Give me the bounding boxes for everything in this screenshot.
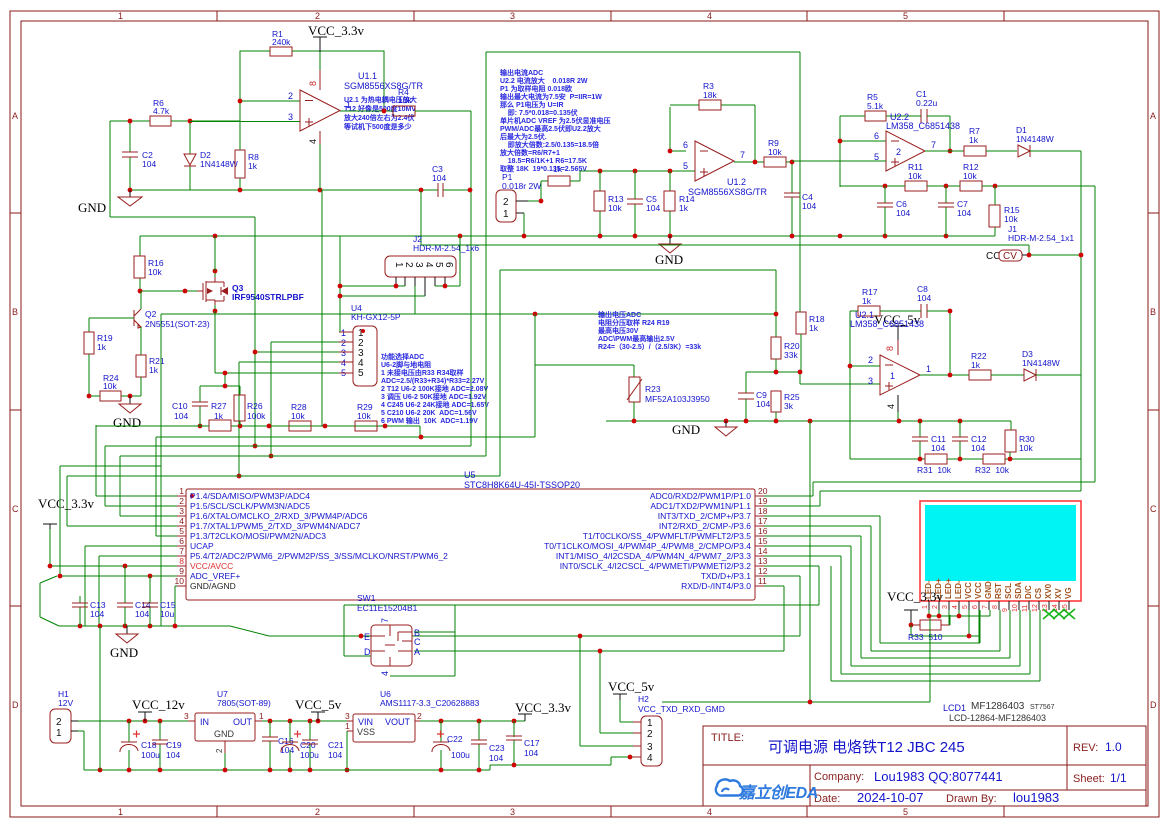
svg-text:C17: C17 — [524, 738, 540, 748]
wire pin2 riser — [105, 446, 471, 506]
wire R21 bottom — [121, 377, 141, 396]
svg-text:17: 17 — [758, 516, 768, 526]
resistor R16 — [134, 256, 145, 278]
wire R9 to C4 node — [786, 161, 792, 236]
svg-text:LM358_C6851438: LM358_C6851438 — [886, 121, 960, 131]
svg-text:CC: CC — [986, 251, 1000, 262]
svg-text:4.7k: 4.7k — [153, 106, 170, 116]
svg-text:6: 6 — [683, 140, 688, 150]
wire CS net — [831, 566, 1040, 681]
svg-text:GND: GND — [78, 200, 106, 215]
svg-text:4: 4 — [423, 262, 434, 268]
resistor R25 — [771, 391, 781, 412]
wire U6 vout to VCC3.3 — [420, 720, 525, 722]
wire p11 net — [414, 586, 784, 733]
svg-text:GND/AGND: GND/AGND — [190, 581, 236, 591]
capacitor C22 electrolytic — [440, 721, 442, 770]
svg-text:10k: 10k — [908, 171, 922, 181]
svg-text:AMS1117-3.3_C20628883: AMS1117-3.3_C20628883 — [380, 698, 480, 708]
svg-text:VCC: VCC — [974, 582, 983, 599]
svg-text:9: 9 — [1002, 608, 1009, 612]
svg-text:1: 1 — [118, 807, 123, 817]
resistor R6 — [150, 116, 171, 126]
svg-text:VCC_3.3v: VCC_3.3v — [38, 496, 94, 511]
svg-text:104: 104 — [896, 208, 910, 218]
frame ticks right — [1148, 213, 1159, 606]
svg-text:U5: U5 — [464, 470, 476, 480]
svg-text:1k: 1k — [97, 342, 107, 352]
wire p14 net — [764, 556, 1030, 674]
svg-text:6: 6 — [972, 605, 979, 609]
svg-text:REV:: REV: — [1073, 742, 1098, 754]
svg-text:104: 104 — [166, 750, 180, 760]
svg-text:TITLE:: TITLE: — [711, 732, 744, 744]
svg-text:D: D — [12, 700, 19, 710]
op-amp U2.1 — [880, 355, 920, 395]
resistor R21 — [136, 355, 146, 377]
svg-text:2: 2 — [288, 91, 293, 101]
svg-text:后最大为2.5伏.: 后最大为2.5伏. — [500, 132, 547, 141]
svg-text:VCC_5v: VCC_5v — [608, 679, 655, 694]
svg-text:2: 2 — [417, 711, 422, 721]
svg-text:7: 7 — [982, 605, 989, 609]
ground symbol below cap rail — [126, 626, 128, 634]
wire R19 bottom to R24 — [89, 354, 100, 396]
svg-text:P1.4/SDA/MISO/PWM3P/ADC4: P1.4/SDA/MISO/PWM3P/ADC4 — [190, 491, 310, 501]
svg-text:C23: C23 — [489, 743, 505, 753]
svg-text:104: 104 — [971, 443, 985, 453]
svg-text:2: 2 — [179, 496, 184, 506]
svg-text:2: 2 — [315, 11, 320, 21]
svg-text:6: 6 — [874, 131, 879, 141]
wire p20 net — [764, 482, 1095, 496]
svg-text:4 C245 U6-2 24K接地 ADC=1.65V: 4 C245 U6-2 24K接地 ADC=1.65V — [381, 400, 489, 409]
svg-text:MF1286403: MF1286403 — [971, 701, 1025, 712]
svg-text:等试机下500度是多少: 等试机下500度是多少 — [343, 122, 412, 131]
svg-text:11: 11 — [1022, 605, 1029, 612]
svg-text:7: 7 — [380, 618, 390, 623]
svg-text:D/C: D/C — [1024, 585, 1033, 599]
U5 left pin stubs — [177, 496, 186, 586]
svg-text:104: 104 — [524, 748, 538, 758]
capacitor C8 — [921, 304, 927, 318]
svg-text:10k: 10k — [398, 95, 412, 105]
resistor R29 — [355, 421, 377, 431]
svg-text:2: 2 — [215, 748, 224, 753]
svg-text:U1.1: U1.1 — [358, 71, 377, 81]
svg-text:18.5=R6/1K+1 R6=17.5K: 18.5=R6/1K+1 R6=17.5K — [500, 158, 587, 165]
svg-text:19: 19 — [758, 496, 768, 506]
capacitor C12 — [959, 421, 961, 459]
svg-text:INT0/SCLK_4/I2CSCL_4/PWMETI/PW: INT0/SCLK_4/I2CSCL_4/PWMETI/PWMETI2/P3.2 — [560, 561, 752, 571]
main GND rail — [140, 235, 995, 237]
annotation block voltage ADC — [598, 310, 701, 351]
svg-text:10u: 10u — [160, 609, 174, 619]
svg-text:104: 104 — [280, 745, 294, 755]
diode D1 — [1018, 145, 1030, 157]
svg-text:Sheet:: Sheet: — [1073, 773, 1105, 785]
wire U6 vss to rail — [346, 731, 348, 770]
ground symbol below R24 — [128, 394, 133, 399]
svg-text:5: 5 — [179, 526, 184, 536]
svg-text:1: 1 — [503, 209, 509, 220]
resistor R9 — [764, 157, 786, 167]
svg-text:2: 2 — [341, 338, 346, 348]
svg-text:3 调压 U6-2 50K接地 ADC=1.92V: 3 调压 U6-2 50K接地 ADC=1.92V — [381, 392, 487, 401]
capacitor C15 — [149, 576, 151, 626]
capacitor C1 — [921, 109, 927, 123]
svg-text:T0/T1CLKO/MOSI_4/PWM4P_4/PWM8_: T0/T1CLKO/MOSI_4/PWM4P_4/PWM8_2/CMPO/P3.… — [544, 541, 751, 551]
wire GND rail top-left — [130, 189, 471, 191]
cap rail 626 — [59, 626, 269, 636]
wire U2.2 plus input — [792, 160, 886, 162]
wire p13 net — [344, 566, 819, 605]
svg-text:KH-GX12-5P: KH-GX12-5P — [351, 312, 401, 322]
resistor R4 — [393, 106, 415, 116]
svg-text:3: 3 — [647, 742, 653, 753]
capacitor C7 — [945, 186, 947, 236]
svg-text:1k: 1k — [248, 161, 258, 171]
svg-text:5: 5 — [903, 807, 908, 817]
svg-text:P1.7/XTAL1/PWM5_2/TXD_3/PWM4N/: P1.7/XTAL1/PWM5_2/TXD_3/PWM4N/ADC7 — [190, 521, 361, 531]
capacitor C11 — [919, 421, 921, 459]
svg-text:2: 2 — [503, 197, 509, 208]
svg-text:U6-2脚与地电阻: U6-2脚与地电阻 — [381, 360, 431, 369]
svg-text:R23: R23 — [645, 384, 661, 394]
wire H1 pin1 to bottom rail — [78, 731, 84, 770]
svg-text:10k: 10k — [148, 267, 162, 277]
resistor R33 510 — [920, 620, 941, 630]
JLC EDA logo — [716, 779, 818, 802]
wire p18 net — [764, 516, 980, 643]
svg-text:3k: 3k — [784, 401, 794, 411]
svg-text:U2.2 电流放大 0.018R 2W: U2.2 电流放大 0.018R 2W — [500, 76, 588, 85]
svg-text:104: 104 — [432, 173, 446, 183]
resistor R13 — [599, 171, 601, 236]
svg-text:3: 3 — [413, 262, 424, 268]
resistor R31 — [925, 454, 947, 464]
svg-text:3: 3 — [510, 807, 515, 817]
svg-text:C20: C20 — [300, 740, 316, 750]
wire pin4 riser — [67, 270, 776, 526]
svg-text:2024-10-07: 2024-10-07 — [857, 790, 924, 805]
wire CV node — [421, 245, 1081, 255]
svg-text:7: 7 — [931, 140, 936, 150]
capacitor C18 electrolytic — [128, 721, 130, 770]
wire p19 net — [764, 491, 1081, 506]
svg-text:10k: 10k — [1004, 214, 1018, 224]
svg-text:ADC_VREF+: ADC_VREF+ — [190, 571, 240, 581]
svg-text:VCC_3.3v: VCC_3.3v — [308, 23, 364, 38]
svg-text:104: 104 — [135, 609, 149, 619]
svg-text:C19: C19 — [166, 740, 182, 750]
wire U1.1 output to R4 — [340, 110, 393, 112]
svg-text:P1.5/SCL/SCLK/PWM3N/ADC5: P1.5/SCL/SCLK/PWM3N/ADC5 — [190, 501, 310, 511]
resistor R22 — [969, 370, 991, 380]
svg-text:U1.2: U1.2 — [727, 177, 746, 187]
wire D1 to CC/CV vertical — [1030, 151, 1081, 491]
wire p15 net — [764, 546, 1020, 666]
svg-text:GND: GND — [214, 729, 235, 739]
svg-text:XV: XV — [1054, 588, 1063, 599]
wire J2 pin1 pin2 to gnd — [340, 286, 425, 296]
svg-text:104: 104 — [917, 293, 931, 303]
wire pin7 — [99, 556, 177, 626]
svg-text:R33 510: R33 510 — [908, 632, 943, 642]
wire top link C10 R26 — [200, 373, 240, 426]
wire encoder loop — [344, 605, 455, 676]
svg-text:IN: IN — [200, 717, 209, 727]
svg-text:R31 10k: R31 10k — [917, 465, 952, 475]
svg-text:GND: GND — [672, 422, 700, 437]
svg-text:B: B — [12, 307, 18, 317]
svg-text:1: 1 — [647, 718, 653, 729]
svg-text:4: 4 — [707, 11, 712, 21]
svg-text:1k: 1k — [214, 411, 224, 421]
wire pin3 riser — [120, 52, 800, 516]
wire P1 pin2 to R10 — [516, 200, 528, 202]
svg-text:ADC=2.5/(R33+R34)*R33=2.27V: ADC=2.5/(R33+R34)*R33=2.27V — [381, 378, 485, 385]
wire J2 pin5 pin6 to gnd rail — [435, 236, 460, 286]
ground symbol mid-right — [725, 421, 727, 427]
wire U4 pin3 thermocouple — [255, 217, 339, 446]
svg-text:VCC: VCC — [964, 582, 973, 599]
svg-text:20: 20 — [758, 486, 768, 496]
op-amp U2.2 — [886, 131, 925, 171]
svg-text:1N4148W: 1N4148W — [200, 159, 238, 169]
wire pin9 ADC_VREF — [40, 466, 177, 626]
resistor R28 — [289, 421, 311, 431]
svg-text:104: 104 — [489, 753, 503, 763]
svg-text:13: 13 — [758, 556, 768, 566]
wire p17 net — [764, 526, 1000, 651]
wire R20 top — [774, 312, 779, 317]
resistor R10 1k — [548, 176, 570, 186]
capacitor C13 — [79, 596, 81, 626]
ground symbol mid — [669, 236, 671, 244]
capacitor C2 — [122, 152, 138, 157]
thermistor R23 — [629, 377, 640, 402]
wire Q2 collector — [140, 291, 142, 309]
svg-text:1k: 1k — [971, 360, 981, 370]
svg-text:RXD/D-/INT4/P3.0: RXD/D-/INT4/P3.0 — [681, 581, 751, 591]
svg-text:10k: 10k — [291, 411, 305, 421]
svg-text:OUT: OUT — [233, 717, 253, 727]
svg-text:1k: 1k — [149, 365, 159, 375]
svg-text:电阻分压取样 R24 R19: 电阻分压取样 R24 R19 — [598, 318, 670, 327]
svg-text:5 C210 U6-2 20K ADC=1.56V: 5 C210 U6-2 20K ADC=1.56V — [381, 410, 477, 417]
svg-text:放大240倍左右为2.4伏: 放大240倍左右为2.4伏 — [343, 113, 414, 122]
svg-text:10k: 10k — [768, 147, 782, 157]
svg-text:1k: 1k — [679, 203, 689, 213]
svg-text:嘉立创EDA: 嘉立创EDA — [738, 784, 818, 802]
svg-text:33k: 33k — [784, 350, 798, 360]
capacitor C6 — [884, 186, 886, 236]
wire backlight gnd row — [929, 610, 990, 702]
capacitor C3 (series in gnd rail) — [438, 183, 443, 197]
svg-text:P1 为取样电阻 0.018欧: P1 为取样电阻 0.018欧 — [500, 84, 572, 93]
long gnd vertical — [160, 314, 162, 626]
svg-text:100u: 100u — [141, 750, 160, 760]
svg-text:6: 6 — [179, 536, 184, 546]
wire p16 net — [764, 536, 1010, 658]
resistor R1 — [270, 47, 292, 56]
svg-text:10k: 10k — [357, 411, 371, 421]
svg-text:Lou1983 QQ:8077441: Lou1983 QQ:8077441 — [874, 769, 1003, 784]
svg-text:10k: 10k — [963, 171, 977, 181]
wire R17/C8 loop — [850, 311, 950, 459]
bottom gnd rail — [84, 757, 627, 770]
svg-text:Company:: Company: — [814, 771, 864, 783]
wire R22 to D3 — [991, 374, 1024, 376]
svg-text:R24=（30-2.5）/（2.5/3K）=33k: R24=（30-2.5）/（2.5/3K）=33k — [598, 343, 701, 351]
wire U2.1 output to R22 — [920, 374, 969, 376]
wire H2 pin4 from gnd rail — [627, 756, 633, 758]
U5 left pin numbers — [175, 486, 185, 586]
svg-text:UCAP: UCAP — [190, 541, 214, 551]
wire Q2 base to R19 — [89, 318, 134, 332]
svg-text:15: 15 — [758, 536, 768, 546]
svg-text:A: A — [12, 111, 18, 121]
svg-text:12: 12 — [758, 566, 768, 576]
svg-text:1 未接电压由R33 R34取样: 1 未接电压由R33 R34取样 — [381, 368, 463, 377]
svg-text:C10: C10 — [172, 401, 188, 411]
svg-text:1: 1 — [926, 364, 931, 374]
resistor R15 — [994, 186, 996, 236]
wire VCC_5v to H2 pin1 — [620, 700, 633, 722]
capacitor C5 — [634, 171, 636, 236]
wire J2 pin3 thermistor net — [161, 286, 776, 377]
frame ticks bottom — [217, 806, 1004, 817]
svg-text:GND: GND — [110, 645, 138, 660]
svg-text:3: 3 — [868, 376, 873, 386]
svg-text:VCC/AVCC: VCC/AVCC — [190, 561, 233, 571]
wire rail riser x100 — [99, 626, 101, 770]
row labels left — [12, 111, 19, 710]
wire VCC node / R33 — [909, 623, 914, 628]
svg-text:C22: C22 — [447, 734, 463, 744]
wire R10 to plus input line — [570, 171, 695, 181]
svg-text:功能选择ADC: 功能选择ADC — [381, 352, 424, 361]
svg-text:10k: 10k — [608, 203, 622, 213]
svg-text:10: 10 — [175, 576, 185, 586]
diode D3 — [1024, 369, 1036, 381]
svg-text:SW1: SW1 — [357, 593, 376, 603]
encoder body — [371, 625, 412, 666]
svg-text:6: 6 — [443, 262, 454, 268]
transistor Q3 IRF9540 — [197, 277, 215, 305]
svg-text:PWM/ADC最高2.5伏即U2.2放大: PWM/ADC最高2.5伏即U2.2放大 — [500, 124, 601, 133]
svg-text:100k: 100k — [247, 411, 266, 421]
svg-text:14: 14 — [758, 546, 768, 556]
wire U4 pin4 — [239, 362, 339, 476]
svg-text:Date:: Date: — [814, 793, 840, 805]
svg-text:LCD-12864-MF1286403: LCD-12864-MF1286403 — [949, 713, 1046, 723]
svg-text:1: 1 — [922, 605, 929, 609]
capacitor C23 — [478, 721, 480, 770]
svg-text:VCC_TXD_RXD_GMD: VCC_TXD_RXD_GMD — [638, 704, 725, 714]
svg-text:1N4148W: 1N4148W — [1016, 134, 1054, 144]
wire thermistor adc line — [156, 314, 535, 437]
svg-text:ST7567: ST7567 — [1030, 704, 1055, 711]
svg-text:VG: VG — [1064, 587, 1073, 599]
diode D2 — [184, 154, 196, 166]
svg-text:E: E — [364, 632, 370, 642]
svg-text:可调电源 电烙铁T12 JBC 245: 可调电源 电烙铁T12 JBC 245 — [768, 739, 965, 756]
svg-text:2: 2 — [315, 807, 320, 817]
svg-text:ADC0/RXD2/PWM1P/P1.0: ADC0/RXD2/PWM1P/P1.0 — [650, 491, 751, 501]
transistor Q2 — [134, 309, 141, 328]
svg-text:1: 1 — [118, 11, 123, 21]
svg-text:1N4148W: 1N4148W — [1022, 358, 1060, 368]
svg-text:输出电压ADC: 输出电压ADC — [598, 310, 641, 319]
svg-text:IRF9540STRLPBF: IRF9540STRLPBF — [232, 292, 304, 302]
wire U1.2 minus input / R3 loop — [670, 105, 755, 162]
svg-text:104: 104 — [802, 201, 816, 211]
wire R5/C1 feedback loop — [840, 116, 950, 187]
wire divider node — [746, 359, 880, 393]
svg-text:12V: 12V — [58, 698, 73, 708]
svg-text:ADC1/TXD2/PWM1N/P1.1: ADC1/TXD2/PWM1N/P1.1 — [650, 501, 751, 511]
svg-text:3: 3 — [510, 11, 515, 21]
svg-text:4: 4 — [308, 139, 318, 144]
svg-text:8: 8 — [992, 605, 999, 609]
svg-text:GND: GND — [655, 252, 683, 267]
resistor R19 — [84, 332, 94, 354]
svg-text:VSS: VSS — [357, 727, 375, 737]
svg-text:5: 5 — [358, 368, 364, 379]
svg-text:5: 5 — [683, 161, 688, 171]
wire R7 to D1 — [986, 150, 1017, 152]
connector P1 — [496, 190, 516, 222]
svg-text:输出电流ADC: 输出电流ADC — [500, 68, 543, 77]
resistor R24 — [100, 391, 121, 401]
svg-text:3: 3 — [942, 605, 949, 609]
resistor R14 — [669, 171, 671, 236]
wire P1 pin1 to gnd rail — [516, 212, 524, 214]
svg-text:VCC_3.3v: VCC_3.3v — [887, 589, 943, 604]
svg-text:1k: 1k — [969, 135, 979, 145]
svg-text:104: 104 — [646, 203, 660, 213]
LCD pin stubs — [929, 601, 1069, 610]
U5 right pin stubs — [755, 496, 764, 586]
row labels right — [1150, 111, 1157, 710]
op-amp U1.1 — [300, 90, 340, 131]
column labels top — [118, 11, 908, 21]
svg-text:C: C — [12, 504, 19, 514]
svg-text:RST: RST — [994, 583, 1003, 599]
svg-text:LED+: LED+ — [944, 578, 953, 599]
wire gnd to GMD line — [662, 421, 930, 702]
wire R31/R32 line — [850, 458, 1081, 460]
capacitor C20 electrolytic — [289, 721, 291, 770]
svg-text:3: 3 — [179, 506, 184, 516]
svg-text:0.018r 2W: 0.018r 2W — [502, 181, 541, 191]
svg-text:0.22u: 0.22u — [916, 98, 938, 108]
wire R23 bottom to mid gnd rail — [633, 402, 635, 421]
svg-text:2 T12 U6-2 100K接地 ADC=2.08V: 2 T12 U6-2 100K接地 ADC=2.08V — [381, 384, 489, 393]
svg-text:4: 4 — [952, 605, 959, 609]
svg-text:1: 1 — [890, 371, 895, 381]
LCD1 body — [920, 501, 1081, 601]
svg-text:GND: GND — [113, 415, 141, 430]
svg-text:VCC_5v: VCC_5v — [295, 697, 342, 712]
svg-text:1: 1 — [345, 721, 350, 731]
resistor R30 — [1005, 430, 1016, 452]
J2 pin stubs — [396, 277, 445, 296]
svg-text:CV: CV — [1003, 251, 1017, 262]
svg-text:9: 9 — [179, 566, 184, 576]
